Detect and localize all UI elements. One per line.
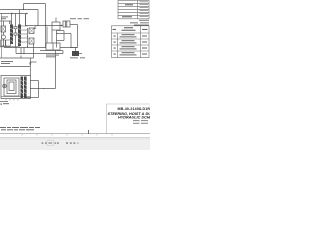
svg-text:HYDRAULIC SCHEMATIC: HYDRAULIC SCHEMATIC [118,116,150,120]
svg-text:MB-40-21408-D1R: MB-40-21408-D1R [118,107,151,111]
